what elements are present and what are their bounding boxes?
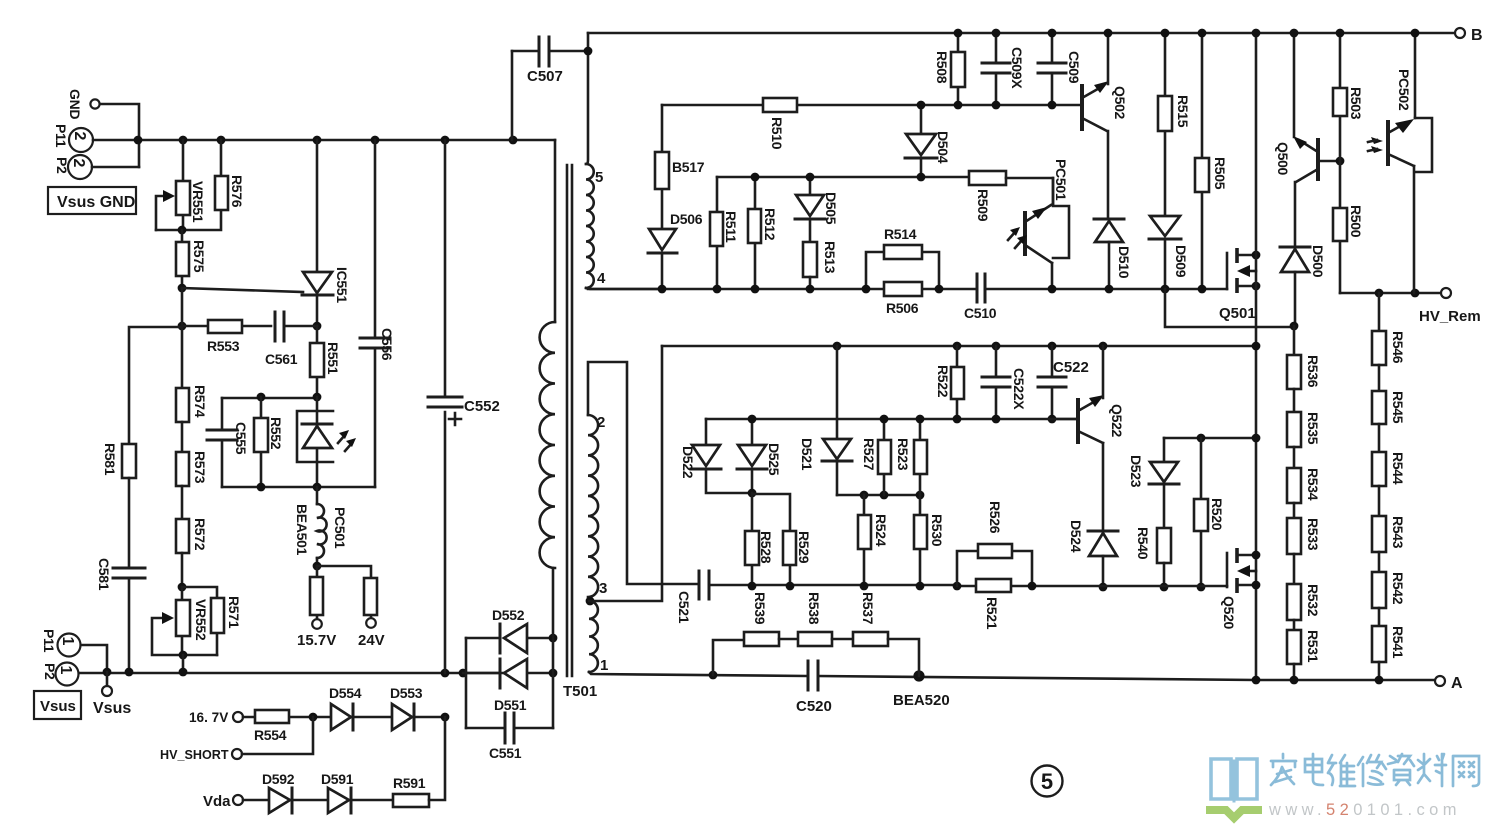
watermark logo book <box>1210 759 1258 818</box>
resistor R544 <box>1372 424 1406 486</box>
svg-text:B517: B517 <box>672 159 705 175</box>
wire Q502 emitter to D510 <box>1107 131 1110 219</box>
resistor R573 <box>176 451 208 519</box>
resistor chain R536 <box>1287 326 1321 389</box>
resistor R555 <box>317 566 385 649</box>
diode D505 <box>795 177 839 242</box>
junction Q501 drain <box>1252 251 1261 260</box>
variable resistor VR551 <box>156 140 206 230</box>
capacitor C561 <box>265 312 317 367</box>
capacitor C551 <box>466 713 553 761</box>
junction R541 bottom <box>1375 676 1384 685</box>
resistor R503 <box>1333 33 1364 161</box>
junction C581 bottom <box>125 668 134 677</box>
resistor R543 <box>1372 486 1406 552</box>
svg-text:R528: R528 <box>758 531 774 564</box>
svg-text:C509X: C509X <box>1009 47 1025 89</box>
svg-text:P11: P11 <box>41 629 57 653</box>
junction VR551/R576 bottom <box>178 226 187 235</box>
watermark text jiadian weixiu ziliao wang <box>1271 754 1479 786</box>
junction R511 bottom <box>713 285 722 294</box>
junction R546 top <box>1375 289 1384 298</box>
junction R572/VR552 <box>178 583 187 592</box>
wire Q500 collector to D500 <box>1294 182 1297 247</box>
svg-text:C581: C581 <box>96 558 112 591</box>
junction C522 top <box>1048 342 1057 351</box>
svg-text:Vda: Vda <box>203 793 231 810</box>
junction Q520 drain <box>1252 551 1261 560</box>
junction R530 bottom <box>916 582 925 591</box>
wire pin1 A rail <box>589 672 1434 680</box>
wire B517 top feed <box>662 104 1082 107</box>
junction Q501 source <box>1252 282 1261 291</box>
svg-text:C556: C556 <box>379 328 395 361</box>
svg-text:D510: D510 <box>1116 246 1132 279</box>
capacitor C556 <box>360 140 395 487</box>
diode D510 <box>1094 219 1132 289</box>
resistor R512 <box>748 177 778 289</box>
svg-text:Q520: Q520 <box>1221 596 1237 630</box>
junction D500 bottom gate node <box>1290 322 1299 331</box>
junction R522 top <box>953 342 962 351</box>
junction D522/D525 bottom <box>748 489 757 498</box>
diode D523 <box>1128 438 1179 528</box>
resistor R511 <box>710 177 739 289</box>
svg-text:R543: R543 <box>1390 516 1406 549</box>
capacitor C581 <box>96 558 145 672</box>
junction IC551 bottom <box>313 322 322 331</box>
svg-text:R512: R512 <box>762 208 778 241</box>
junction R539 left <box>709 671 718 680</box>
terminal 16.7V <box>189 710 243 725</box>
svg-text:R542: R542 <box>1390 572 1406 605</box>
junction R537 right BEA520 <box>913 670 924 681</box>
svg-text:R575: R575 <box>191 240 207 273</box>
svg-text:R511: R511 <box>723 211 739 243</box>
svg-text:C510: C510 <box>964 305 997 321</box>
svg-text:R535: R535 <box>1305 412 1321 445</box>
transistor Q500 <box>1275 33 1340 182</box>
diode D509 <box>1149 216 1189 289</box>
capacitor C510 <box>964 274 997 321</box>
junction R505 top <box>1198 29 1207 38</box>
wire primary bottom lead <box>552 568 555 728</box>
junction zener row zener top <box>313 393 322 402</box>
svg-text:3: 3 <box>599 580 607 597</box>
svg-text:D522: D522 <box>680 446 696 479</box>
svg-text:16. 7V: 16. 7V <box>189 710 228 725</box>
terminal Vda <box>203 793 243 810</box>
terminal A <box>1435 675 1463 692</box>
opto transistor PC502 <box>1368 33 1432 293</box>
svg-text:15.7V: 15.7V <box>297 632 336 649</box>
junction R523 top <box>916 415 925 424</box>
junction R505 bottom <box>1198 285 1207 294</box>
diode D592 <box>243 771 328 813</box>
junction C509 bottom <box>1048 101 1057 110</box>
svg-text:R529: R529 <box>796 531 812 564</box>
junction R540 bottom <box>1160 583 1169 592</box>
svg-text:D552: D552 <box>492 607 525 623</box>
svg-text:R576: R576 <box>229 175 245 208</box>
junction D552 right <box>549 634 558 643</box>
wire B rail <box>588 32 1454 35</box>
resistor R537 <box>832 592 919 676</box>
junction D510 bottom <box>1105 285 1114 294</box>
wire VR552 to bottom rail <box>182 655 185 672</box>
junction regulator chain bottom <box>179 668 188 677</box>
svg-text:C555: C555 <box>233 422 249 455</box>
svg-text:C507: C507 <box>527 68 563 85</box>
svg-text:R503: R503 <box>1348 87 1364 120</box>
junction C522 bottom <box>1048 415 1057 424</box>
svg-text:R520: R520 <box>1209 498 1225 531</box>
junction PC502 bottom <box>1411 289 1420 298</box>
capacitor C509X <box>982 33 1025 105</box>
capacitor C522X <box>982 346 1027 419</box>
resistor R515 <box>1158 33 1191 216</box>
resistor R524 <box>858 495 889 586</box>
svg-text:GND: GND <box>67 89 83 119</box>
junction main rail C507 <box>509 136 518 145</box>
junction D504 bottom <box>917 173 926 182</box>
resistor R554 <box>243 710 331 743</box>
junction C509 top <box>1048 29 1057 38</box>
svg-text:R508: R508 <box>934 51 950 84</box>
svg-text:R537: R537 <box>860 592 876 625</box>
svg-text:R553: R553 <box>207 338 240 354</box>
capacitor C552 electrolytic <box>428 140 500 673</box>
winding primary <box>540 140 555 568</box>
svg-text:R505: R505 <box>1212 157 1228 190</box>
junction R575 bottom <box>178 284 187 293</box>
svg-text:Q502: Q502 <box>1112 86 1128 120</box>
resistor R509 <box>969 171 1053 222</box>
terminal HV_SHORT <box>160 748 242 762</box>
svg-text:R522: R522 <box>935 365 951 398</box>
svg-text:PC501: PC501 <box>332 507 348 549</box>
junction R514 right <box>935 285 944 294</box>
svg-text:Q522: Q522 <box>1109 404 1125 438</box>
resistor R552 <box>254 397 284 487</box>
svg-text:R538: R538 <box>806 592 822 625</box>
terminal HV_Rem <box>1419 288 1481 325</box>
resistor R500 <box>1333 161 1364 293</box>
svg-text:R540: R540 <box>1135 527 1151 560</box>
svg-text:R526: R526 <box>987 501 1003 534</box>
svg-text:R544: R544 <box>1390 452 1406 485</box>
svg-text:C561: C561 <box>265 351 298 367</box>
wire lower section top rail <box>662 345 1256 348</box>
svg-text:R581: R581 <box>102 443 118 476</box>
resistor R528 <box>745 493 774 586</box>
resistor R574 <box>176 385 208 452</box>
junction D523 rail right <box>1252 434 1261 443</box>
junction Vsus tap <box>103 668 112 677</box>
junction C507 right <box>584 47 593 56</box>
wire P11-1 down to rail <box>81 645 107 672</box>
diode D521 <box>799 346 852 495</box>
svg-text:PC502: PC502 <box>1396 69 1412 111</box>
winding 1 <box>589 601 598 672</box>
junction rail to snubber vertical <box>1252 342 1261 351</box>
resistor R534 <box>1287 447 1321 503</box>
resistor R523 <box>895 419 927 495</box>
resistor R556 <box>297 566 336 649</box>
svg-text:D504: D504 <box>935 131 951 164</box>
junction D553 to C552 line <box>441 713 450 722</box>
junction R503 top <box>1336 29 1345 38</box>
diode D551 <box>463 659 553 713</box>
resistor R576 <box>156 140 245 230</box>
svg-text:D591: D591 <box>321 771 354 787</box>
svg-text:PC501: PC501 <box>1053 159 1069 201</box>
resistor R521 <box>976 579 1011 630</box>
svg-text:2: 2 <box>70 159 87 168</box>
svg-text:D506: D506 <box>670 211 703 227</box>
junction D509 bottom <box>1161 285 1170 294</box>
junction R523/R530 <box>916 491 925 500</box>
capacitor C507 <box>512 37 588 140</box>
svg-text:R500: R500 <box>1348 205 1364 238</box>
junction C522X top <box>992 342 1001 351</box>
connector P2 pin 2 <box>54 155 92 179</box>
resistor R553 <box>182 320 271 354</box>
thyristor IC551 <box>302 140 350 326</box>
wire D55x bracket left <box>465 638 468 728</box>
junction D525 top <box>748 415 757 424</box>
svg-text:BEA520: BEA520 <box>893 692 950 709</box>
svg-text:R531: R531 <box>1305 630 1321 663</box>
svg-text:1: 1 <box>59 637 76 646</box>
junction main rail C552 <box>441 136 450 145</box>
wire second rail <box>706 418 1078 421</box>
svg-text:R536: R536 <box>1305 355 1321 388</box>
junction Q500 base <box>1336 157 1345 166</box>
resistor R540 <box>1135 527 1171 587</box>
wire R575 to IC551 <box>182 288 303 292</box>
resistor R530 <box>914 495 945 586</box>
opto LED PC501 zener in package <box>297 397 356 487</box>
wire HV_SHORT to 16.7V row <box>242 717 313 754</box>
svg-text:P2: P2 <box>54 157 70 174</box>
node Vsus label box <box>34 691 81 719</box>
svg-text:D509: D509 <box>1173 245 1189 278</box>
svg-text:R546: R546 <box>1390 331 1406 364</box>
wire D523 rail <box>1164 437 1256 440</box>
junction pin3 <box>586 597 595 606</box>
svg-text:R513: R513 <box>822 241 838 274</box>
svg-text:P2: P2 <box>42 663 58 680</box>
MOSFET Q520 <box>1221 548 1256 630</box>
svg-text:24V: 24V <box>358 632 385 649</box>
MOSFET Q501 <box>1219 248 1256 322</box>
capacitor C555 <box>207 398 249 487</box>
junction main rail C556 <box>371 136 380 145</box>
junction snubber top <box>1252 29 1261 38</box>
svg-text:5: 5 <box>595 169 603 186</box>
resistor R533 <box>1287 503 1321 554</box>
junction R524 top <box>860 491 869 500</box>
wire R575-R553 vertical <box>181 288 184 388</box>
resistor R513 <box>803 241 838 289</box>
resistor R535 <box>1287 389 1321 447</box>
winding 2-3 <box>588 362 698 597</box>
resistor R527 <box>861 419 891 495</box>
junction VR552 bottom <box>179 651 188 660</box>
junction D551 right <box>549 669 558 678</box>
svg-text:R539: R539 <box>752 592 768 625</box>
junction R527 bottom <box>880 491 889 500</box>
svg-text:A: A <box>1451 675 1463 692</box>
junction R526 left <box>953 582 962 591</box>
svg-text:R509: R509 <box>975 189 991 222</box>
junction R514 left <box>862 285 871 294</box>
wire fourth rail <box>957 585 1227 588</box>
svg-text:C509: C509 <box>1066 51 1082 84</box>
svg-text:P11: P11 <box>53 124 69 148</box>
svg-text:2: 2 <box>71 132 88 141</box>
junction D504 top <box>917 101 926 110</box>
diode D525 <box>737 419 782 493</box>
svg-text:Q500: Q500 <box>1275 142 1291 176</box>
junction R529 bottom <box>786 582 795 591</box>
capacitor C522 <box>1038 346 1089 419</box>
resistor R508 <box>934 33 965 105</box>
diode D591 <box>321 771 393 813</box>
resistor chain R546 <box>1372 293 1406 365</box>
svg-text:R541: R541 <box>1390 626 1406 659</box>
junction C522X bottom <box>992 415 1001 424</box>
junction R526 right <box>1028 582 1037 591</box>
resistor B517 <box>655 105 705 229</box>
svg-text:R574: R574 <box>192 385 208 418</box>
svg-text:R534: R534 <box>1305 468 1321 501</box>
winding 5-4 <box>586 164 662 289</box>
svg-text:T501: T501 <box>563 683 597 700</box>
wire secondary top return rail <box>588 288 1227 291</box>
resistor R522 <box>935 346 964 419</box>
wire pin3 to lower rail <box>590 346 662 601</box>
svg-text:R530: R530 <box>929 514 945 547</box>
junction Q520 source to A rail <box>1252 676 1261 685</box>
resistor R506 <box>884 282 922 316</box>
wire third rail <box>837 494 920 497</box>
svg-text:4: 4 <box>597 270 606 287</box>
svg-text:C522X: C522X <box>1011 368 1027 410</box>
svg-text:BEA501: BEA501 <box>294 504 310 556</box>
junction zener row R552 top <box>257 393 266 402</box>
diode D504 <box>905 105 951 177</box>
svg-text:R571: R571 <box>226 596 242 629</box>
svg-text:1: 1 <box>57 666 74 675</box>
svg-text:IC551: IC551 <box>334 267 350 303</box>
svg-text:R554: R554 <box>254 727 287 743</box>
svg-text:www.520101.com: www.520101.com <box>1268 801 1461 819</box>
svg-text:Vsus: Vsus <box>40 698 76 715</box>
svg-text:R551: R551 <box>325 342 341 375</box>
wire main GND rail <box>93 139 555 142</box>
diode D522 <box>680 419 752 493</box>
resistor R505 <box>1195 33 1228 289</box>
junction main rail at bracket <box>134 136 143 145</box>
connector P11 pin 2 <box>53 124 93 152</box>
junction R528 bottom <box>748 582 757 591</box>
junction main rail IC551 <box>313 136 322 145</box>
svg-text:2: 2 <box>597 414 605 431</box>
resistor R545 <box>1372 365 1406 424</box>
junction zener bottom <box>313 483 322 492</box>
junction R531 bottom <box>1290 676 1299 685</box>
resistor R531 <box>1287 620 1321 680</box>
resistor R529 <box>752 494 812 586</box>
svg-text:R552: R552 <box>268 417 284 450</box>
svg-text:C521: C521 <box>676 591 692 624</box>
wire Q522 emitter <box>1102 443 1105 531</box>
wire pin5 top lead <box>586 33 588 164</box>
junction R524 bottom <box>860 582 869 591</box>
junction Q522 collector <box>1099 342 1108 351</box>
svg-text:VR551: VR551 <box>190 181 206 223</box>
resistor R526 <box>957 501 1032 586</box>
capacitor C520 <box>796 661 832 715</box>
resistor R542 <box>1372 552 1406 608</box>
svg-text:R572: R572 <box>192 518 208 551</box>
svg-text:C551: C551 <box>489 745 522 761</box>
zener top wire <box>222 397 317 400</box>
junction D521 top <box>833 342 842 351</box>
svg-text:HV_SHORT: HV_SHORT <box>160 748 229 762</box>
svg-text:R545: R545 <box>1390 391 1406 424</box>
junction R522 bottom <box>953 415 962 424</box>
junction main rail R576 <box>217 136 226 145</box>
resistor R538 <box>779 592 832 646</box>
svg-text:D523: D523 <box>1128 455 1144 488</box>
svg-text:R521: R521 <box>984 597 1000 630</box>
transformer T501 core <box>563 165 597 700</box>
junction main rail VR551 <box>179 136 188 145</box>
svg-text:Vsus GND: Vsus GND <box>57 194 135 211</box>
svg-text:D551: D551 <box>494 697 527 713</box>
junction D505 top <box>806 173 815 182</box>
page number 5 <box>1032 766 1063 797</box>
svg-text:D554: D554 <box>329 685 362 701</box>
junction Q520 source <box>1252 581 1261 590</box>
zener bottom wire <box>222 486 375 489</box>
junction R512 top <box>751 173 760 182</box>
junction R515 top <box>1161 29 1170 38</box>
capacitor C521 <box>676 571 957 624</box>
junction Q500 emitter top <box>1290 29 1299 38</box>
svg-text:R506: R506 <box>886 300 919 316</box>
transistor Q522 <box>1049 346 1125 444</box>
opto transistor PC501 <box>1008 159 1069 289</box>
svg-text:D524: D524 <box>1068 520 1084 553</box>
wire snubber vertical <box>1255 33 1258 680</box>
resistor R581 <box>102 443 136 568</box>
svg-text:VR552: VR552 <box>193 599 209 641</box>
junction R527 top <box>880 415 889 424</box>
svg-text:R591: R591 <box>393 775 426 791</box>
wire HV_Rem <box>1340 292 1440 295</box>
junction PC502 top <box>1411 29 1420 38</box>
wire R581 branch <box>129 327 182 444</box>
resistor R541 <box>1372 608 1406 680</box>
resistor R510 <box>763 98 797 150</box>
junction D506 bottom <box>658 285 667 294</box>
junction R552 bottom <box>257 483 266 492</box>
connector P2 pin 1 <box>42 663 79 686</box>
